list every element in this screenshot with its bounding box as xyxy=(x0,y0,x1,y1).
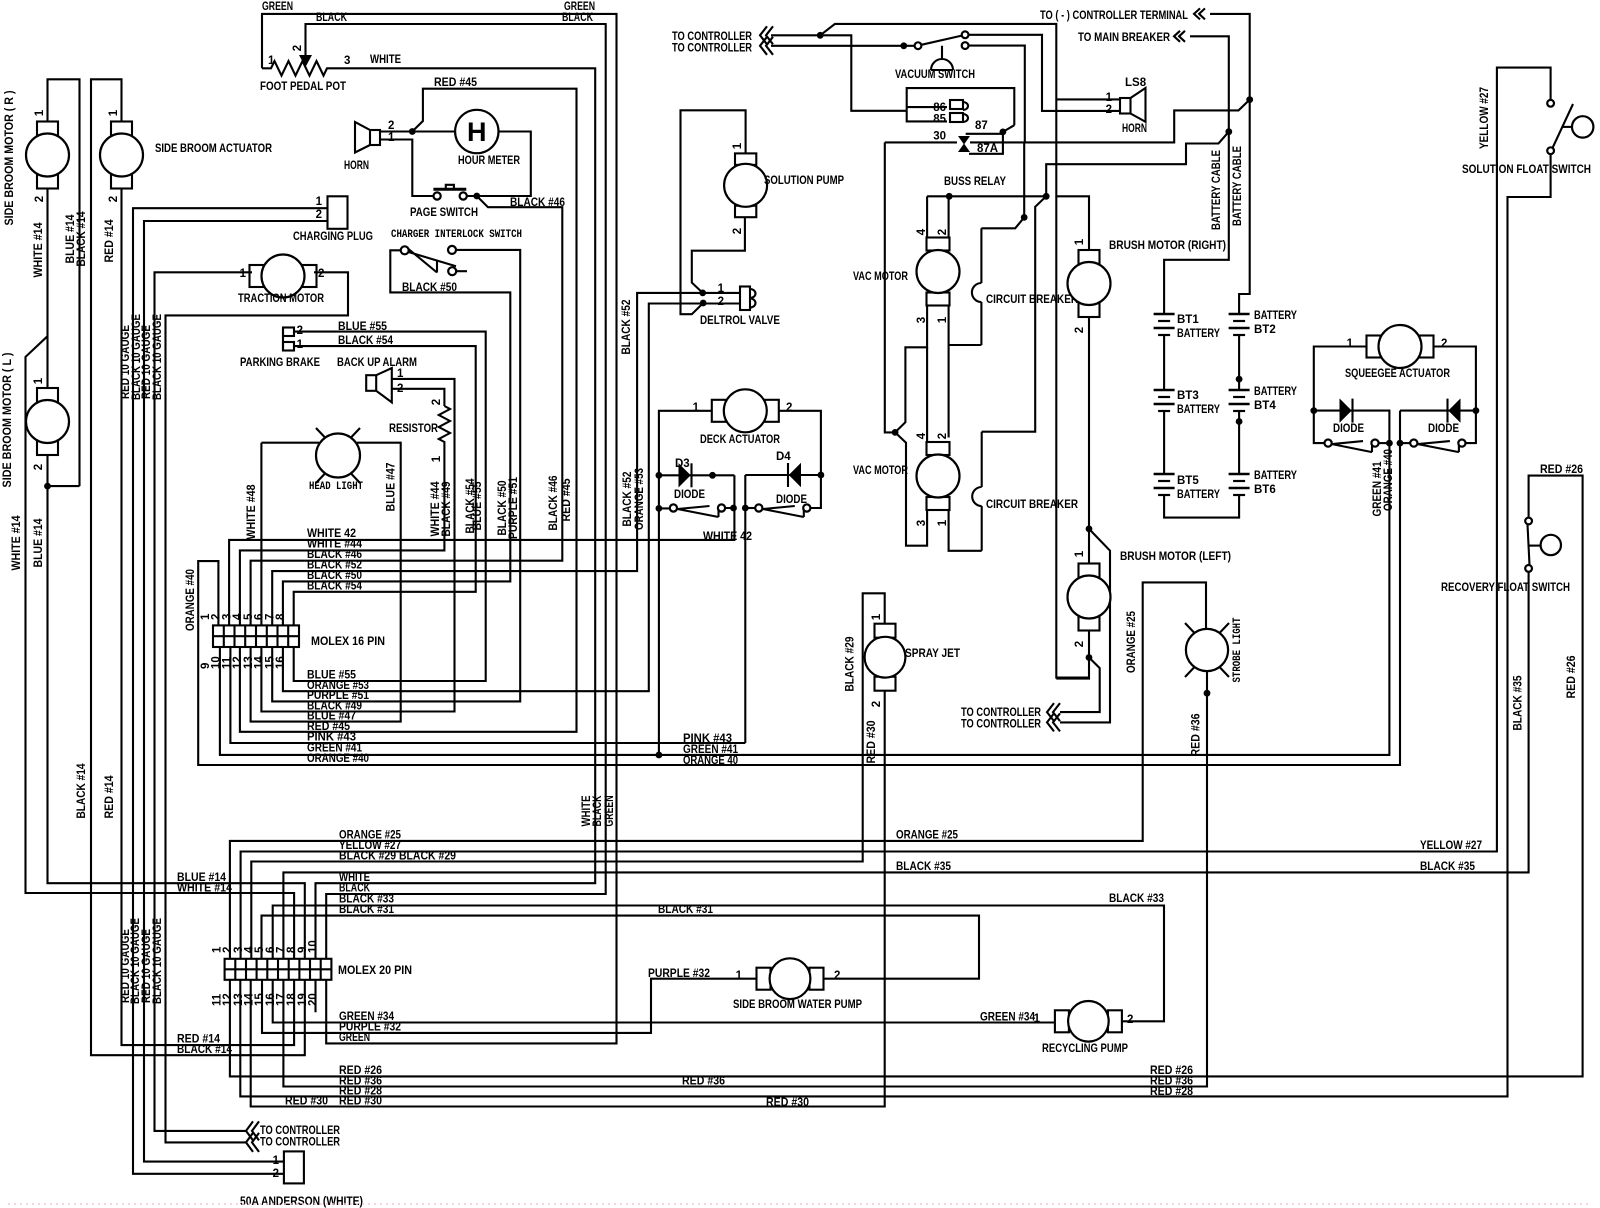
svg-text:87: 87 xyxy=(975,120,988,132)
svg-text:CIRCUIT BREAKER: CIRCUIT BREAKER xyxy=(986,499,1079,511)
svg-text:BATTERY: BATTERY xyxy=(1254,386,1297,398)
svg-text:BATTERY: BATTERY xyxy=(1177,328,1220,340)
arrow to controller terminal xyxy=(1194,8,1205,19)
wire PINK #43: molex16 pin10 to D4 xyxy=(230,647,745,743)
motor VAC MOTOR (upper) xyxy=(927,238,950,251)
svg-text:1: 1 xyxy=(1074,238,1086,245)
svg-text:GREEN: GREEN xyxy=(604,796,616,827)
pump RECYCLING PUMP xyxy=(1055,1010,1069,1032)
svg-text:2: 2 xyxy=(834,970,840,982)
breaker CIRCUIT BREAKER (lower) xyxy=(981,432,983,487)
svg-text:BLACK #46: BLACK #46 xyxy=(548,476,560,531)
svg-text:STROBE LIGHT: STROBE LIGHT xyxy=(1232,617,1244,682)
motor TRACTION MOTOR xyxy=(250,265,264,287)
svg-text:2: 2 xyxy=(1074,641,1086,647)
switch PAGE SWITCH xyxy=(433,188,466,191)
switch VACUUM SWITCH xyxy=(915,42,922,49)
limit switch (squeegee left) xyxy=(1325,440,1332,447)
junction vac motor common xyxy=(892,429,899,436)
wire controller line 1 to buss relay coil xyxy=(771,35,907,111)
svg-text:ORANGE 40: ORANGE 40 xyxy=(683,755,738,767)
wire battery cable right down to BT2 xyxy=(1239,100,1250,314)
wire BLACK #46: page switch to molex16 pin4 xyxy=(251,196,563,625)
wire BLACK #29: molex20 pin3 to spray jet pin1 xyxy=(251,593,884,959)
motor BRUSH MOTOR (RIGHT) xyxy=(1079,250,1100,264)
wire BLACK #54: parking brake pin1 to molex16 pin8 xyxy=(294,346,476,625)
svg-text:WHITE #14: WHITE #14 xyxy=(11,515,23,571)
svg-text:2: 2 xyxy=(108,196,120,202)
svg-text:BRUSH MOTOR (LEFT): BRUSH MOTOR (LEFT) xyxy=(1120,551,1231,563)
svg-text:BATTERY CABLE: BATTERY CABLE xyxy=(1232,146,1244,226)
svg-text:ORANGE #40: ORANGE #40 xyxy=(1383,449,1395,511)
svg-text:BLACK #35: BLACK #35 xyxy=(1513,675,1525,731)
wire deck actuator pin2 loop: D4 xyxy=(780,411,821,508)
junction vac1 pin2 xyxy=(946,193,953,200)
wire branch to LS8 pin1 and brush motors xyxy=(820,24,1089,678)
svg-text:SIDE BROOM ACTUATOR: SIDE BROOM ACTUATOR xyxy=(155,143,273,155)
connector CHARGING PLUG xyxy=(328,196,348,229)
svg-text:BT6: BT6 xyxy=(1254,484,1276,496)
junction RED #45 / horn-hour meter xyxy=(409,128,416,135)
svg-text:PAGE SWITCH: PAGE SWITCH xyxy=(410,207,478,219)
svg-text:2: 2 xyxy=(871,701,883,707)
wire controller line 2 to vacuum switch xyxy=(771,45,915,47)
svg-text:BLUE #47: BLUE #47 xyxy=(386,463,398,512)
wire BLACK #31: molex20 pin4 to side broom water pump pin2 xyxy=(262,916,980,979)
wire vac2 pin4 xyxy=(926,347,928,442)
wire RED #36: molex20 pin16 to strobe light xyxy=(283,671,1207,1087)
wire GREEN #41: molex16 pin9 to squeegee diode D5 xyxy=(220,443,1390,755)
svg-text:ORANGE #25: ORANGE #25 xyxy=(1126,610,1138,673)
svg-text:BLACK #14: BLACK #14 xyxy=(76,763,88,819)
relay contact arrows xyxy=(958,136,970,145)
wire TO(-) controller terminal to battery cable right xyxy=(1210,14,1250,100)
svg-text:BLACK #14: BLACK #14 xyxy=(177,1044,233,1056)
wire BLACK: foot pedal pin2 to molex20 pin10 xyxy=(306,24,606,959)
svg-text:SPRAY JET: SPRAY JET xyxy=(905,648,960,660)
horn HORN (left speaker) xyxy=(370,130,380,145)
battery BT4 xyxy=(1229,389,1250,392)
svg-text:SIDE BROOM MOTOR ( R ): SIDE BROOM MOTOR ( R ) xyxy=(4,90,16,225)
wire GREEN: foot pedal pin1 to molex20 pin20 xyxy=(262,14,617,1044)
svg-text:MOLEX 16 PIN: MOLEX 16 PIN xyxy=(311,636,385,648)
svg-text:BLACK: BLACK xyxy=(592,795,604,827)
svg-text:RED #14: RED #14 xyxy=(104,775,116,819)
wire solution pump pin2 loop xyxy=(692,217,745,293)
svg-text:30: 30 xyxy=(933,131,946,143)
wire D3 line xyxy=(659,474,735,476)
wire vac1 pin2 xyxy=(948,196,950,238)
svg-text:2: 2 xyxy=(431,399,443,405)
wire squeegee pin1 loop xyxy=(1314,347,1366,444)
alarm BACK UP ALARM speaker xyxy=(366,375,376,391)
limit switch (deck D3) xyxy=(670,504,677,511)
wire ORANGE #53: deltrol pin2 to molex16 pin15 xyxy=(283,304,739,692)
junction GREEN #41 xyxy=(656,752,663,759)
pump SIDE BROOM WATER PUMP xyxy=(757,968,771,990)
svg-text:BLACK #33: BLACK #33 xyxy=(1109,893,1164,905)
wire brush right pin2 to brush left pin1 xyxy=(1088,318,1090,563)
svg-text:16: 16 xyxy=(275,656,287,669)
svg-text:H: H xyxy=(467,117,487,147)
svg-text:HEAD LIGHT: HEAD LIGHT xyxy=(309,481,363,493)
svg-text:TO CONTROLLER: TO CONTROLLER xyxy=(961,719,1042,731)
svg-text:TO CONTROLLER: TO CONTROLLER xyxy=(260,1137,341,1149)
svg-text:BT5: BT5 xyxy=(1177,475,1199,487)
horn LS8 xyxy=(1120,98,1131,114)
svg-text:3: 3 xyxy=(916,520,928,526)
junction battery cable left xyxy=(1225,128,1232,135)
svg-text:BLACK #31: BLACK #31 xyxy=(339,904,395,916)
svg-text:1: 1 xyxy=(33,377,45,384)
wire 87A xyxy=(969,134,1003,154)
junction GREEN#41 / switch xyxy=(1386,440,1393,447)
svg-text:BLUE #55: BLUE #55 xyxy=(338,321,388,333)
svg-text:BLACK #14: BLACK #14 xyxy=(76,211,88,267)
svg-text:DELTROL VALVE: DELTROL VALVE xyxy=(700,315,780,327)
svg-text:1: 1 xyxy=(693,402,700,414)
wire deck actuator pin1 loop: D3, limit switch, PINK#43/GREEN#41 xyxy=(659,411,712,509)
lamp HEAD LIGHT xyxy=(316,434,360,478)
svg-text:BATTERY: BATTERY xyxy=(1254,310,1297,322)
arrow to controller 1 xyxy=(760,26,773,44)
wire 30 bus xyxy=(885,141,957,143)
svg-text:2: 2 xyxy=(1106,104,1112,116)
wire PURPLE #51: interlock to molex16 pin14 xyxy=(272,250,520,702)
junction D3 switch right / WHITE42 xyxy=(730,505,737,512)
svg-text:2: 2 xyxy=(718,296,724,308)
svg-text:BLACK 10 GAUGE: BLACK 10 GAUGE xyxy=(152,314,164,400)
svg-text:CHARGER INTERLOCK SWITCH: CHARGER INTERLOCK SWITCH xyxy=(391,229,522,241)
svg-text:BLACK #31: BLACK #31 xyxy=(658,904,714,916)
svg-text:BT4: BT4 xyxy=(1254,400,1276,412)
wire vac1 pin1 + breaker1 bottom + vac2 pin2 xyxy=(948,305,950,438)
svg-text:1: 1 xyxy=(736,970,743,982)
svg-text:PURPLE #32: PURPLE #32 xyxy=(648,968,710,980)
junction ORANGE#40 / switch xyxy=(1397,440,1404,447)
junction D6 cathode xyxy=(1473,407,1480,414)
svg-text:1: 1 xyxy=(431,455,443,462)
wire D4 line xyxy=(745,474,821,476)
wire TO MAIN BREAKER / battery cable left to BT1 xyxy=(1190,36,1229,131)
svg-text:SQUEEGEE ACTUATOR: SQUEEGEE ACTUATOR xyxy=(1345,368,1451,380)
wire vac1 pin4 xyxy=(926,196,928,238)
switch RECOVERY FLOAT SWITCH xyxy=(1525,518,1532,525)
wire RED #14: actuator pin2 to molex20 pin17 xyxy=(122,188,295,1046)
svg-text:BLACK: BLACK xyxy=(316,12,348,24)
svg-text:RED #26: RED #26 xyxy=(1540,464,1583,476)
svg-text:2: 2 xyxy=(34,196,46,202)
diode D6 xyxy=(1449,400,1460,422)
svg-text:2: 2 xyxy=(316,209,322,221)
junction vac top corner xyxy=(1043,193,1050,200)
wire battery interconnects xyxy=(1163,335,1165,390)
wire D6 diode line to ORANGE#40 xyxy=(1400,410,1476,412)
wire horn pin1 down to page switch left xyxy=(380,140,434,197)
svg-text:BLUE #55: BLUE #55 xyxy=(472,481,484,531)
svg-text:1: 1 xyxy=(108,109,120,116)
battery BT3 xyxy=(1154,389,1175,392)
svg-text:TO CONTROLLER: TO CONTROLLER xyxy=(672,31,753,43)
svg-text:TO CONTROLLER: TO CONTROLLER xyxy=(672,43,753,55)
svg-text:TRACTION MOTOR: TRACTION MOTOR xyxy=(238,293,325,305)
junction breaker1 top xyxy=(1021,214,1028,221)
junction D3 cathode xyxy=(709,472,716,479)
svg-text:PURPLE #51: PURPLE #51 xyxy=(508,476,520,539)
junction 87 xyxy=(1000,129,1007,136)
battery BT2 xyxy=(1229,313,1250,316)
svg-text:SIDE BROOM WATER PUMP: SIDE BROOM WATER PUMP xyxy=(733,999,862,1011)
motor VAC MOTOR (lower) xyxy=(927,442,950,455)
wire vacuum switch lower to relay 30 bus xyxy=(969,46,1025,143)
svg-text:TO CONTROLLER: TO CONTROLLER xyxy=(260,1125,341,1137)
junction motor L pin2 / BLUE #14 xyxy=(44,483,51,490)
svg-text:1: 1 xyxy=(297,339,304,351)
wire 30-line down to junction xyxy=(885,142,895,432)
wire PURPLE #32: molex20 pin14 to side broom water pump pin1 xyxy=(262,979,757,1033)
svg-text:2: 2 xyxy=(786,402,792,414)
svg-text:BLACK #54: BLACK #54 xyxy=(307,581,363,593)
junction BT4-BT6 xyxy=(1236,418,1243,425)
wire WHITE: foot pedal pin3 to molex20 pin9 xyxy=(316,68,596,959)
svg-text:10: 10 xyxy=(308,940,320,953)
battery BT5 xyxy=(1154,473,1175,476)
wire WHITE #44 with resistor: alarm pin2 to molex16 pin3 xyxy=(392,389,444,406)
junction controller 2 xyxy=(900,42,907,49)
connector MOLEX 16 PIN xyxy=(213,625,299,647)
wire YELLOW #27: molex20 pin2 to solution float switch xyxy=(241,68,1551,959)
svg-text:3: 3 xyxy=(344,55,350,67)
svg-text:ORANGE #40: ORANGE #40 xyxy=(185,569,197,631)
arrow to controller 2 xyxy=(760,37,773,55)
wire BLACK 10 GAUGE: charging plug pin2 to anderson pin1 xyxy=(144,221,328,1162)
wire controller to brush motor left pin2 xyxy=(1060,658,1100,713)
wire BLUE #47: head light to molex16 pin12 xyxy=(251,443,401,722)
svg-text:BLACK: BLACK xyxy=(562,12,594,24)
svg-text:1: 1 xyxy=(316,196,323,208)
limit switch (deck D4) xyxy=(755,504,762,511)
relay coil 86/85 xyxy=(907,106,947,108)
svg-text:RED #26: RED #26 xyxy=(1566,656,1578,699)
svg-text:8: 8 xyxy=(275,613,287,620)
svg-text:SIDE BROOM MOTOR ( L ): SIDE BROOM MOTOR ( L ) xyxy=(2,352,14,487)
junction deltrol pin1 xyxy=(699,290,706,297)
wire D3 switch circle connections xyxy=(659,507,734,509)
motor BRUSH MOTOR (LEFT) xyxy=(1079,564,1100,578)
connector PARKING BRAKE xyxy=(282,329,284,352)
wire WHITE 42: molex16 pin2 to deck actuator D3 xyxy=(229,475,734,625)
wire junction to vac2 pin3 xyxy=(895,432,927,545)
wire BLACK #49: alarm pin1 to molex16 pin13 xyxy=(261,379,454,712)
junction D5 anode xyxy=(1310,407,1317,414)
svg-text:2: 2 xyxy=(1074,327,1086,333)
junction brush left pin2 xyxy=(1086,654,1093,661)
svg-text:SOLUTION PUMP: SOLUTION PUMP xyxy=(764,175,844,187)
wire brush left pin2 xyxy=(1056,631,1089,679)
svg-text:1: 1 xyxy=(273,1155,280,1167)
svg-text:RESISTOR: RESISTOR xyxy=(389,423,439,435)
svg-text:BLUE #14: BLUE #14 xyxy=(33,518,45,568)
svg-text:SOLUTION FLOAT SWITCH: SOLUTION FLOAT SWITCH xyxy=(1462,164,1591,176)
resistor RESISTOR xyxy=(439,406,450,444)
arrow to controller 6 xyxy=(246,1133,259,1152)
svg-text:RED #30: RED #30 xyxy=(285,1096,328,1108)
motor SQUEEGEE ACTUATOR xyxy=(1367,336,1381,358)
svg-text:BLACK #29 BLACK #29: BLACK #29 BLACK #29 xyxy=(339,851,456,863)
junction D3 switch xyxy=(656,505,663,512)
wire ORANGE #40: molex16 pin1 U-loop to squeegee diode xyxy=(198,443,1400,765)
wire BLUE #14: motor L pin2 junction to molex20 pin8 xyxy=(48,455,305,959)
svg-text:1: 1 xyxy=(871,613,883,620)
svg-text:HOUR METER: HOUR METER xyxy=(458,155,521,167)
svg-text:BLACK #35: BLACK #35 xyxy=(1420,861,1476,873)
svg-text:WHITE #48: WHITE #48 xyxy=(246,484,258,540)
wire BLUE #55: parking brake pin2 to molex16 pin16 xyxy=(294,332,486,681)
svg-text:4: 4 xyxy=(916,432,928,439)
junction battery cable right xyxy=(1246,96,1253,103)
junction deltrol pin2 xyxy=(700,300,707,307)
svg-text:TO MAIN BREAKER: TO MAIN BREAKER xyxy=(1078,32,1171,44)
svg-text:D4: D4 xyxy=(776,451,791,463)
svg-text:BLACK #29: BLACK #29 xyxy=(845,637,857,692)
wire controller to brush motor left pin1 xyxy=(1060,529,1110,723)
connector 50A ANDERSON (WHITE) xyxy=(284,1151,304,1183)
svg-text:2: 2 xyxy=(388,120,394,132)
junction D3 anode xyxy=(656,472,663,479)
svg-text:1: 1 xyxy=(268,55,275,67)
battery BT1 xyxy=(1154,313,1175,316)
svg-text:1: 1 xyxy=(240,268,247,280)
svg-text:BRUSH MOTOR (RIGHT): BRUSH MOTOR (RIGHT) xyxy=(1109,240,1226,252)
svg-text:1: 1 xyxy=(1106,92,1113,104)
wire RED 10 GAUGE: traction motor pin1 to controller xyxy=(155,272,253,1131)
svg-text:1: 1 xyxy=(937,519,949,526)
wire BLACK #52: deltrol pin1 to molex16 pin6 xyxy=(272,293,739,626)
svg-text:VACUUM SWITCH: VACUUM SWITCH xyxy=(895,69,975,81)
svg-text:BATTERY: BATTERY xyxy=(1177,489,1220,501)
svg-text:RED #45: RED #45 xyxy=(561,478,573,522)
svg-text:1: 1 xyxy=(34,109,46,116)
motor SIDE BROOM ACTUATOR xyxy=(111,122,132,136)
wire vacuum switch upper to LS8 pin2 xyxy=(969,35,1121,111)
svg-text:YELLOW #27: YELLOW #27 xyxy=(1479,87,1491,149)
battery BT6 xyxy=(1229,473,1250,476)
svg-text:MOLEX 20 PIN: MOLEX 20 PIN xyxy=(338,965,412,977)
svg-text:GREEN #34: GREEN #34 xyxy=(980,1012,1036,1024)
svg-text:BLACK #52: BLACK #52 xyxy=(621,300,633,355)
wire brush motor right pin1 xyxy=(1056,196,1089,249)
svg-text:2: 2 xyxy=(732,228,744,234)
junction brush motors xyxy=(1086,526,1093,533)
limit switch (squeegee right) xyxy=(1410,440,1417,447)
svg-text:RED #14: RED #14 xyxy=(104,219,116,263)
wire RED 10 GAUGE: charging plug pin1 to anderson pin2 xyxy=(133,208,328,1174)
svg-text:WHITE #14: WHITE #14 xyxy=(177,883,233,895)
svg-text:1: 1 xyxy=(937,316,949,323)
svg-text:1: 1 xyxy=(732,142,744,149)
svg-text:RED #36: RED #36 xyxy=(1191,714,1203,757)
svg-text:D3: D3 xyxy=(675,458,690,470)
svg-text:DIODE: DIODE xyxy=(776,494,807,506)
wire RED #26: molex20 pin11 to recovery float switch xyxy=(230,476,1583,1077)
svg-text:2: 2 xyxy=(937,433,949,439)
svg-text:BLACK #35: BLACK #35 xyxy=(896,861,952,873)
svg-text:GREEN: GREEN xyxy=(339,1032,370,1044)
wire hour meter right to page switch xyxy=(467,132,531,197)
wire RED #30: molex20 pin13 to spray jet pin2 xyxy=(251,692,885,1107)
svg-text:BT3: BT3 xyxy=(1177,390,1199,402)
junction D4 switch / PINK#43 xyxy=(742,505,749,512)
motor SIDE BROOM MOTOR (L) xyxy=(37,388,58,402)
svg-text:DIODE: DIODE xyxy=(1428,423,1459,435)
svg-text:VAC MOTOR: VAC MOTOR xyxy=(853,271,909,283)
svg-text:1: 1 xyxy=(1347,338,1354,350)
wire GREEN #34: molex20 pin15 to recycling pump pin1 xyxy=(273,980,1055,1023)
wire BLACK #14: actuator pin1 to molex20 pin18 xyxy=(91,79,305,1055)
svg-text:BLACK #52: BLACK #52 xyxy=(622,472,634,527)
svg-text:VAC MOTOR: VAC MOTOR xyxy=(853,465,909,477)
arrow to controller 4 xyxy=(1047,713,1060,731)
relay BUSS RELAY coil box xyxy=(907,88,1015,125)
wire horn pin2 to hour meter xyxy=(380,130,455,132)
svg-text:BLACK 10 GAUGE: BLACK 10 GAUGE xyxy=(152,918,164,1004)
svg-text:HORN: HORN xyxy=(344,160,369,172)
svg-text:RECOVERY FLOAT SWITCH: RECOVERY FLOAT SWITCH xyxy=(1441,582,1570,594)
svg-text:1: 1 xyxy=(388,132,395,144)
wire vac2 pin1 + breaker2 bottom xyxy=(949,510,982,551)
svg-text:BLACK #46: BLACK #46 xyxy=(510,197,565,209)
svg-text:FOOT PEDAL POT: FOOT PEDAL POT xyxy=(260,81,346,93)
svg-text:BLACK #50: BLACK #50 xyxy=(402,282,457,294)
svg-text:1: 1 xyxy=(1074,550,1086,557)
svg-text:4: 4 xyxy=(916,228,928,235)
junction controller/LS8 branch xyxy=(817,32,824,39)
svg-text:87A: 87A xyxy=(977,143,998,155)
svg-text:50A ANDERSON (WHITE): 50A ANDERSON (WHITE) xyxy=(240,1196,363,1208)
connector MOLEX 20 PIN xyxy=(225,959,332,980)
svg-text:RED #28: RED #28 xyxy=(1150,1086,1194,1098)
motor SPRAY JET xyxy=(875,624,896,638)
wire ORANGE #25: molex20 pin1 to strobe light xyxy=(230,582,1206,958)
svg-text:BATTERY CABLE: BATTERY CABLE xyxy=(1211,150,1223,230)
diode D3 xyxy=(679,464,690,486)
junction strobe RED#36 xyxy=(1204,690,1211,697)
svg-text:BT2: BT2 xyxy=(1254,324,1276,336)
svg-text:PARKING BRAKE: PARKING BRAKE xyxy=(240,357,320,369)
wire LS8 pin1 xyxy=(1056,98,1120,100)
svg-text:DIODE: DIODE xyxy=(1333,423,1364,435)
junction page switch / BLACK#46 xyxy=(473,193,480,200)
svg-text:BLACK #54: BLACK #54 xyxy=(338,335,394,347)
svg-text:2: 2 xyxy=(292,45,304,51)
svg-text:DIODE: DIODE xyxy=(674,489,705,501)
svg-text:2: 2 xyxy=(937,229,949,235)
svg-text:BLACK #49: BLACK #49 xyxy=(441,482,453,537)
wire WHITE #48: head light to molex16 pin5 xyxy=(261,443,319,626)
diode D4 xyxy=(790,464,801,486)
svg-text:RED #30: RED #30 xyxy=(866,721,878,764)
svg-text:CIRCUIT BREAKER: CIRCUIT BREAKER xyxy=(986,294,1079,306)
svg-text:2: 2 xyxy=(1127,1014,1133,1026)
relay contact 87 xyxy=(1003,125,1014,132)
svg-text:BUSS RELAY: BUSS RELAY xyxy=(944,176,1006,188)
wire RED #45 branch: hour meter line up to RED#45 rail xyxy=(240,89,577,732)
svg-text:WHITE #14: WHITE #14 xyxy=(33,222,45,278)
motor SIDE BROOM MOTOR (R) xyxy=(37,122,58,136)
wire vac1 pin3 to junction xyxy=(895,305,927,432)
svg-text:WHITE 42: WHITE 42 xyxy=(703,531,752,543)
arrow to controller 3 xyxy=(1047,703,1060,721)
